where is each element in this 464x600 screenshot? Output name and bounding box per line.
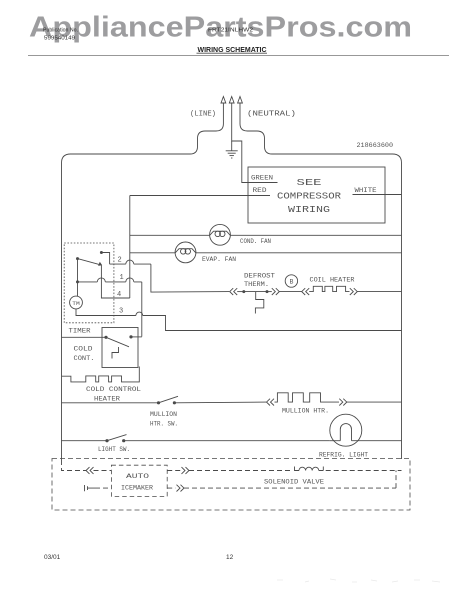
svg-text:COMPRESSOR: COMPRESSOR — [277, 192, 342, 202]
svg-text:SEE: SEE — [297, 178, 322, 188]
svg-text:RED: RED — [253, 187, 268, 194]
svg-text:Publication No.: Publication No. — [43, 28, 78, 34]
svg-text:03/01: 03/01 — [44, 554, 61, 561]
svg-text:WHITE: WHITE — [355, 187, 377, 194]
svg-text:GREEN: GREEN — [251, 175, 273, 182]
svg-text:(NEUTRAL): (NEUTRAL) — [247, 111, 296, 119]
svg-text:MULLION: MULLION — [150, 411, 177, 418]
svg-text:LIGHT SW.: LIGHT SW. — [98, 446, 130, 453]
svg-text:ICEMAKER: ICEMAKER — [121, 484, 153, 491]
svg-text:DEFROST: DEFROST — [244, 273, 275, 280]
svg-text:(LINE): (LINE) — [190, 111, 216, 119]
svg-text:COLD CONTROL: COLD CONTROL — [86, 386, 141, 393]
svg-text:599540149: 599540149 — [44, 36, 75, 42]
svg-text:HTR. SW.: HTR. SW. — [150, 420, 178, 427]
svg-text:CONT.: CONT. — [74, 355, 95, 362]
svg-text:2: 2 — [118, 256, 122, 264]
svg-text:3: 3 — [119, 308, 123, 316]
svg-text:FRT21INLHW2: FRT21INLHW2 — [208, 28, 253, 34]
svg-text:WIRING: WIRING — [288, 205, 330, 215]
svg-text:COND. FAN: COND. FAN — [240, 238, 271, 245]
svg-text:THERM.: THERM. — [244, 281, 269, 288]
svg-text:B: B — [289, 279, 293, 286]
svg-text:4: 4 — [117, 291, 121, 299]
svg-text:SOLENOID VALVE: SOLENOID VALVE — [264, 478, 324, 485]
svg-text:WIRING SCHEMATIC: WIRING SCHEMATIC — [198, 45, 267, 54]
svg-text:12: 12 — [226, 554, 234, 561]
svg-text:AUTO: AUTO — [126, 473, 150, 480]
svg-text:EVAP. FAN: EVAP. FAN — [202, 256, 236, 263]
svg-text:COLD: COLD — [74, 346, 93, 353]
svg-text:1: 1 — [120, 274, 124, 282]
svg-text:REFRIG. LIGHT: REFRIG. LIGHT — [319, 451, 368, 458]
svg-text:TIMER: TIMER — [69, 327, 91, 334]
svg-text:HEATER: HEATER — [94, 396, 120, 403]
svg-text:MULLION HTR.: MULLION HTR. — [282, 407, 329, 414]
svg-text:218663600: 218663600 — [357, 142, 394, 149]
svg-text:COIL HEATER: COIL HEATER — [310, 277, 355, 284]
svg-text:TM: TM — [72, 301, 80, 307]
